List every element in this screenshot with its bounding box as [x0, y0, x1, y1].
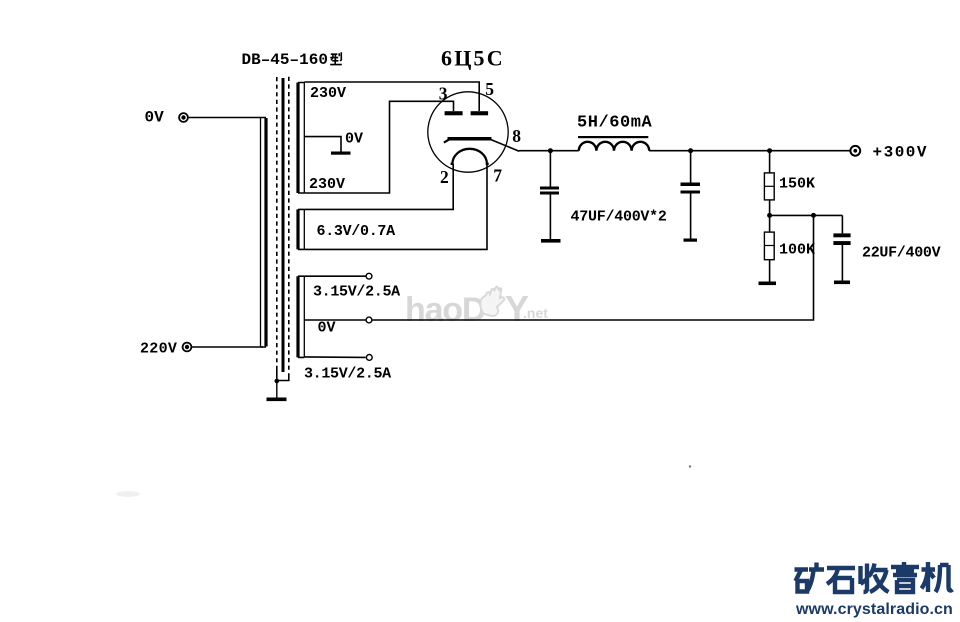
svg-text:220V: 220V — [140, 341, 177, 358]
svg-text:3: 3 — [439, 84, 448, 104]
svg-text:0V: 0V — [145, 109, 165, 127]
svg-text:DB–45–160: DB–45–160 — [242, 51, 328, 69]
svg-text:6.3V/0.7A: 6.3V/0.7A — [317, 223, 396, 240]
svg-text:150K: 150K — [779, 176, 815, 193]
svg-text:47UF/400V*2: 47UF/400V*2 — [571, 209, 667, 226]
svg-text:haoD: haoD — [405, 291, 486, 329]
svg-text:230V: 230V — [310, 85, 346, 102]
svg-text:0V: 0V — [345, 131, 363, 148]
svg-text:5H/60mA: 5H/60mA — [577, 114, 653, 133]
svg-text:22UF/400V: 22UF/400V — [862, 245, 941, 262]
svg-text:2: 2 — [440, 167, 449, 187]
svg-text:7: 7 — [493, 165, 502, 185]
svg-text:100K: 100K — [779, 242, 815, 259]
svg-text:.net: .net — [523, 305, 548, 321]
svg-text:6Ц5C: 6Ц5C — [441, 46, 505, 71]
svg-text:0V: 0V — [318, 320, 336, 337]
svg-text:+300V: +300V — [873, 144, 929, 162]
svg-text:230V: 230V — [309, 176, 345, 193]
svg-text:3.15V/2.5A: 3.15V/2.5A — [304, 366, 391, 383]
svg-text:www.crystalradio.cn: www.crystalradio.cn — [795, 601, 953, 618]
svg-text:8: 8 — [512, 126, 521, 146]
svg-text:3.15V/2.5A: 3.15V/2.5A — [313, 284, 400, 301]
svg-text:5: 5 — [485, 79, 494, 99]
